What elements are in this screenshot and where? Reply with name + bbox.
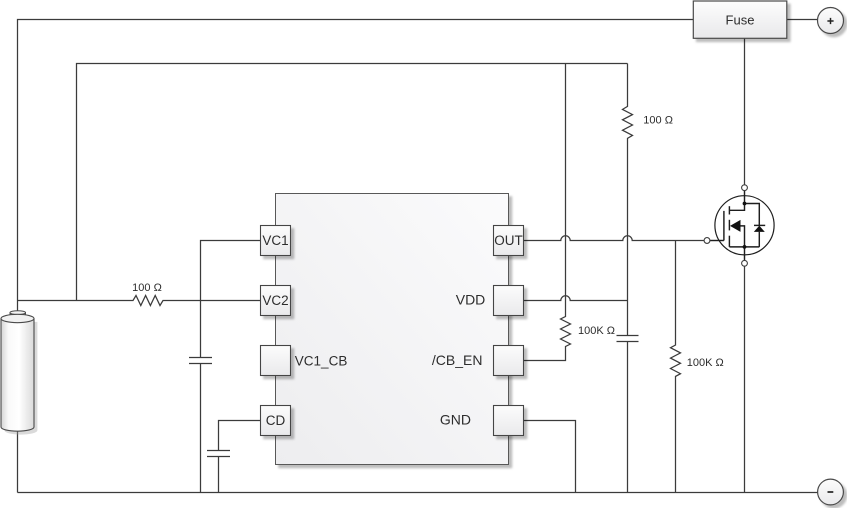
MOSFET Q1 arrow and body diode fills: [730, 202, 765, 249]
wire C1 bottom to ground rail: [200, 364, 202, 493]
pin /CB_EN: [432, 346, 524, 376]
wire fuse right to plus terminal: [787, 19, 818, 21]
svg-text:100 Ω: 100 Ω: [643, 114, 673, 126]
capacitor C1 plates: [189, 358, 212, 364]
wire VC1 to C1 and ground rail: [201, 241, 261, 358]
wire GND pin to ground rail: [524, 421, 576, 493]
pin CD: [261, 406, 291, 436]
fuse F1: [693, 1, 787, 38]
svg-text:100 Ω: 100 Ω: [132, 282, 162, 294]
wire C2 bottom to ground rail: [627, 342, 629, 493]
wire fuse bottom to MOSFET drain: [744, 39, 746, 185]
wire OUT to MOSFET gate with hops: [524, 236, 705, 241]
wire battery+ node to VC2 with resistor R1 inline: [18, 296, 261, 306]
svg-text:VDD: VDD: [456, 292, 486, 308]
svg-text:VC1: VC1: [262, 233, 288, 248]
ground rail wire: [18, 492, 818, 494]
IC U1 body: [276, 194, 509, 465]
MOSFET terminal circles: [704, 185, 747, 266]
pin VC1_CB: [261, 346, 348, 376]
pin VDD: [456, 286, 524, 316]
plus terminal: [818, 8, 844, 34]
pin VC1: [261, 226, 291, 256]
minus terminal: [818, 479, 844, 505]
battery BT1: [1, 311, 37, 435]
svg-text:Fuse: Fuse: [726, 12, 755, 27]
wire OUT node down through R4 to ground rail: [671, 241, 681, 493]
wire node VDD drop with resistor R2 100ohm inline: [623, 64, 633, 336]
pin GND: [440, 406, 524, 436]
svg-text:VC1_CB: VC1_CB: [295, 353, 348, 368]
svg-text:CD: CD: [266, 413, 286, 428]
svg-text:GND: GND: [440, 412, 471, 428]
wire inner loop: VC2 node up and across top: [77, 64, 628, 301]
svg-text:/CB_EN: /CB_EN: [432, 352, 483, 368]
wire battery+ up left side and top to fuse: [18, 20, 694, 312]
wire VDD to node with hop: [524, 296, 628, 301]
capacitor C3 plates: [207, 451, 230, 457]
svg-text:VC2: VC2: [262, 293, 288, 308]
svg-text:OUT: OUT: [494, 233, 523, 248]
capacitor C2 plates at VDD node: [617, 336, 639, 342]
pin VC2: [261, 286, 291, 316]
MOSFET Q1: [710, 191, 774, 261]
wire battery- to ground rail: [17, 430, 19, 493]
svg-text:100K Ω: 100K Ω: [687, 357, 724, 369]
pin OUT: [494, 226, 524, 256]
wire MOSFET source to ground rail: [744, 266, 746, 492]
wire node from inner loop down to R3 and CB_EN: [524, 64, 571, 361]
wire C3 bottom to ground rail: [218, 457, 220, 493]
svg-text:100K Ω: 100K Ω: [578, 325, 615, 337]
wire CD to C3: [219, 421, 261, 451]
